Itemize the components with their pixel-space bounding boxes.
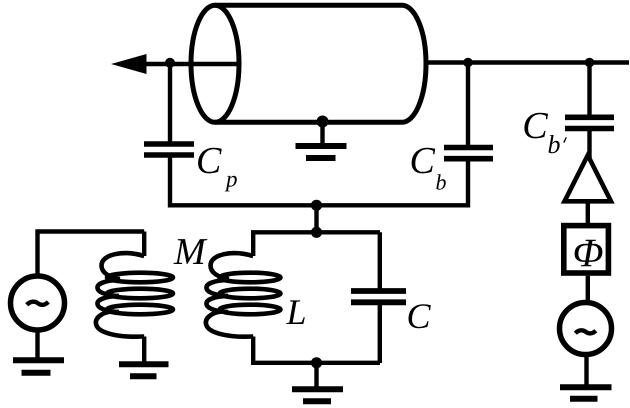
inductor L: entry arc	[211, 253, 254, 279]
wire: tank bottom to ground stub	[314, 363, 318, 389]
inductor L: exit arc	[206, 312, 253, 337]
inductor L: top lead	[251, 232, 255, 256]
coil M: turn 3	[107, 305, 173, 315]
ground (below cylinder) bar 1	[296, 143, 347, 149]
capacitor Cb top plate	[444, 145, 493, 151]
AC source left (circle)	[11, 276, 65, 330]
inductor L: link arc 2-3	[206, 296, 228, 312]
junction dot: cylinder bottom to ground	[317, 116, 329, 128]
ground (below tank) bar 2	[303, 398, 331, 404]
capacitor C top plate	[351, 288, 406, 294]
wire: tank right side down to C	[378, 232, 382, 292]
coil M: turn 1	[107, 273, 173, 283]
junction dot at Cb' branch	[585, 58, 595, 68]
cavity resonator cylinder: bottom wall	[215, 120, 402, 125]
amplifier U1 (triangle)	[565, 155, 612, 201]
inductor L: turn 3	[220, 305, 281, 315]
label C (tank)	[409, 304, 431, 328]
node A junction dot (probe tap)	[165, 58, 175, 68]
capacitor Cp top plate	[144, 141, 194, 147]
coil M: entry arc	[102, 253, 145, 279]
coil M: top lead	[142, 232, 146, 257]
ground (right source) bar 1	[560, 384, 612, 390]
wire: left source top corner to coil M	[38, 232, 145, 278]
cavity resonator cylinder: left end ellipse	[191, 5, 239, 122]
wire: left source to ground	[35, 328, 39, 360]
wire: amplifier to phase shifter	[586, 201, 590, 224]
label Cb	[412, 148, 446, 190]
wire: C down to tank bottom	[378, 302, 382, 363]
capacitor Cb' top plate	[565, 115, 614, 121]
wire: Cp down and node line across to Cb	[170, 155, 468, 205]
tilde of right source	[575, 330, 596, 333]
ground (below cylinder) bar 2	[306, 155, 336, 161]
capacitor Cb bottom plate	[444, 156, 493, 162]
wire: node line to tank top	[314, 205, 318, 232]
capacitor C bottom plate	[351, 299, 406, 305]
ground (left source) bar 1	[13, 357, 64, 363]
wire: output probe line (left)	[142, 62, 238, 66]
ground (below coil M) bar 1	[119, 361, 169, 367]
cavity resonator cylinder: top wall	[215, 3, 402, 8]
tilde of left source	[27, 302, 49, 305]
inductor L: link arc 1-2	[206, 280, 228, 296]
label Cb'	[524, 113, 566, 154]
coil M: bottom lead	[142, 337, 146, 363]
arrowhead on output line	[111, 54, 147, 74]
label L	[286, 300, 305, 324]
wire: down to Cb'	[587, 63, 591, 119]
label Cp	[198, 148, 237, 192]
wire: cylinder to ground stub	[320, 122, 324, 145]
inductor L: turn 2	[220, 289, 281, 299]
ground (left source) bar 2	[22, 370, 51, 376]
junction dot at Cb	[463, 58, 473, 68]
capacitor Cb lead from top line	[466, 63, 470, 149]
ground (below tank) bar 1	[292, 386, 343, 392]
inductor L: turn 1	[220, 273, 281, 283]
cavity resonator cylinder: right end arc	[402, 5, 426, 122]
wire: Cb' to amplifier	[587, 129, 591, 159]
tank top junction dot	[311, 227, 322, 238]
capacitor Cp bottom plate	[144, 152, 194, 158]
ground (right source) bar 2	[570, 396, 598, 402]
coil M: turn 2	[107, 289, 173, 299]
coil M: exit arc	[96, 312, 144, 337]
wire: source to ground	[584, 354, 588, 387]
wire: probe tap down to Cp	[168, 64, 172, 142]
ground (below coil M) bar 2	[130, 373, 157, 379]
label Phi	[575, 240, 603, 266]
capacitor Cb' bottom plate	[565, 126, 614, 132]
wire: tank circuit top side	[251, 230, 380, 234]
coil M: link arc 2-3	[97, 296, 119, 312]
tank bottom junction dot	[311, 357, 322, 368]
phase shifter box	[564, 226, 609, 273]
label M	[174, 239, 208, 264]
wire: top line from cylinder to right edge	[426, 60, 629, 64]
coil M: link arc 1-2	[97, 280, 119, 296]
AC source right (circle)	[560, 303, 612, 355]
wire: phase shifter to source	[586, 276, 590, 303]
inductor L: bottom lead	[251, 337, 255, 364]
wire: tank circuit bottom side	[251, 361, 380, 365]
node dot on node line	[311, 200, 322, 211]
